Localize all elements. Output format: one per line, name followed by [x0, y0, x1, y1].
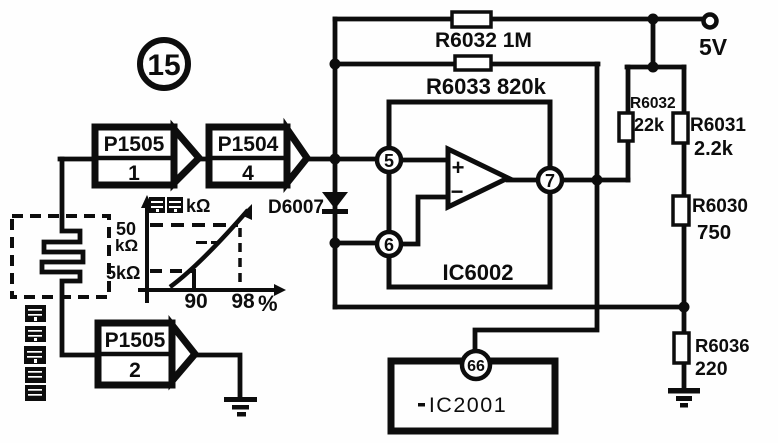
svg-text:90: 90: [184, 290, 207, 313]
svg-text:5V: 5V: [699, 34, 728, 60]
svg-text:7: 7: [545, 171, 555, 191]
svg-text:15: 15: [147, 49, 180, 82]
svg-text:kΩ: kΩ: [186, 196, 210, 216]
svg-text:R6032: R6032: [630, 95, 676, 112]
svg-text:IC2001: IC2001: [429, 393, 507, 417]
svg-text:D6007: D6007: [268, 197, 324, 218]
svg-text:750: 750: [697, 221, 731, 244]
svg-text:IC6002: IC6002: [443, 260, 514, 285]
svg-text:R6030: R6030: [692, 196, 748, 217]
svg-text:kΩ: kΩ: [115, 236, 138, 255]
svg-text:2.2k: 2.2k: [694, 138, 734, 160]
svg-text:22k: 22k: [634, 115, 665, 135]
svg-text:%: %: [258, 291, 278, 316]
svg-text:2: 2: [129, 359, 141, 382]
svg-text:5kΩ: 5kΩ: [106, 263, 140, 283]
svg-text:1: 1: [128, 162, 140, 185]
svg-text:P1504: P1504: [218, 133, 279, 156]
svg-text:R6032 1M: R6032 1M: [435, 29, 532, 52]
svg-text:6: 6: [384, 235, 394, 255]
svg-text:R6033 820k: R6033 820k: [426, 74, 547, 99]
svg-text:+: +: [452, 155, 465, 180]
svg-text:P1505: P1505: [105, 329, 166, 352]
svg-text:66: 66: [467, 358, 485, 375]
svg-text:−: −: [451, 179, 464, 204]
svg-text:4: 4: [242, 162, 254, 185]
svg-text:P1505: P1505: [104, 133, 165, 156]
svg-text:220: 220: [695, 358, 728, 380]
svg-text:98: 98: [231, 290, 255, 313]
svg-text:R6036: R6036: [695, 335, 750, 356]
svg-text:5: 5: [384, 151, 394, 171]
svg-text:R6031: R6031: [690, 115, 746, 136]
